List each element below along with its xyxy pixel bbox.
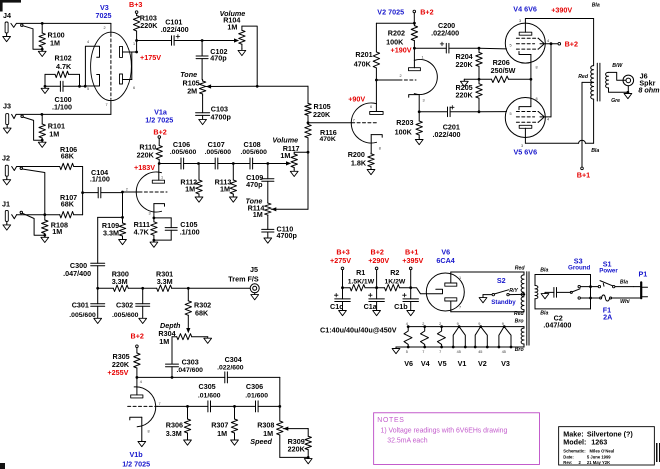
tube V2b grid link — [376, 79, 416, 81]
tube V1a label — [145, 107, 173, 124]
tube V2a grid — [308, 122, 377, 124]
tube V5 screen dashes — [516, 117, 538, 122]
svg-text:21 May Y2K: 21 May Y2K — [587, 460, 610, 465]
svg-text:1: 1 — [422, 56, 424, 60]
node R205/C201 — [478, 110, 481, 113]
wire B+1 center tap — [578, 74, 593, 167]
svg-text:1M: 1M — [52, 227, 62, 236]
ground R108 — [41, 235, 49, 242]
svg-text:J1: J1 — [2, 199, 10, 208]
wire J1 switch — [22, 213, 43, 235]
svg-text:B+2: B+2 — [565, 40, 578, 49]
node R/Y tap — [522, 293, 525, 296]
svg-text:2: 2 — [104, 26, 106, 30]
svg-text:+90V: +90V — [348, 94, 365, 103]
ground C2 — [541, 292, 549, 298]
svg-text:4.7K: 4.7K — [56, 62, 72, 71]
svg-text:4: 4 — [547, 118, 549, 122]
capacitor C303 — [166, 358, 204, 378]
node C303/B+2 wire — [171, 376, 174, 379]
ground C103 — [199, 115, 207, 124]
ground C110 — [264, 232, 272, 243]
label Whi — [620, 299, 630, 305]
node C305/R307 — [233, 405, 236, 408]
svg-text:5: 5 — [87, 87, 89, 91]
heater bus bottom — [396, 346, 524, 348]
svg-text:C303: C303 — [182, 358, 199, 367]
svg-text:9: 9 — [478, 322, 480, 326]
svg-text:S2: S2 — [497, 276, 506, 285]
capacitor C300 — [63, 217, 105, 288]
svg-text:Red: Red — [578, 74, 589, 80]
ground R101 — [38, 140, 46, 147]
svg-text:Bla: Bla — [540, 310, 548, 316]
resistor R300 — [98, 270, 143, 292]
svg-text:6: 6 — [133, 86, 135, 90]
svg-text:7: 7 — [106, 103, 108, 107]
node J3/R101 — [41, 113, 44, 116]
transformer T1 secondary — [606, 72, 628, 92]
svg-text:Power: Power — [599, 267, 618, 274]
title model — [563, 437, 607, 446]
resistor R111 — [134, 218, 158, 242]
svg-text:J3: J3 — [3, 102, 11, 111]
svg-text:C306: C306 — [246, 382, 263, 391]
node J1/R108 — [43, 213, 46, 216]
svg-text:Bro: Bro — [515, 318, 524, 324]
svg-text:.1/100: .1/100 — [180, 228, 200, 237]
terminal B+3 top — [129, 0, 142, 13]
label Speed — [250, 421, 274, 446]
capacitor C1a — [364, 288, 385, 311]
heater bus top — [408, 326, 524, 328]
svg-text:5: 5 — [510, 112, 512, 116]
terminal B+2 (output) — [551, 40, 578, 49]
resistor R112 — [180, 164, 202, 196]
tube V5 plate — [519, 125, 532, 143]
svg-text:Date:: Date: — [563, 454, 573, 459]
wire to C300 — [98, 216, 123, 218]
svg-text:.1/100: .1/100 — [52, 103, 72, 112]
tube V1a grid — [123, 191, 168, 193]
node +190V — [413, 47, 416, 50]
capacitor C301 — [69, 288, 104, 319]
svg-text:1M: 1M — [280, 151, 290, 160]
svg-text:5: 5 — [510, 44, 512, 48]
label Volume (R104) — [220, 9, 246, 31]
node +183V — [134, 162, 161, 172]
svg-text:B/W: B/W — [612, 63, 623, 69]
node C107/R113 — [232, 162, 235, 165]
wire J4 to V3 grid — [16, 22, 111, 24]
svg-text:45: 45 — [457, 350, 461, 354]
ground R102 — [41, 86, 49, 93]
label Bla primary top — [540, 268, 548, 274]
svg-text:9: 9 — [502, 322, 504, 326]
tube V2a plate — [370, 80, 383, 114]
svg-text:R1: R1 — [356, 268, 365, 277]
svg-text:220K: 220K — [288, 445, 306, 454]
node B+2 rail — [375, 286, 378, 289]
potentiometer R304 — [172, 334, 208, 340]
resistor R106 — [17, 145, 83, 170]
label Gre — [611, 98, 620, 104]
svg-text:V2: V2 — [478, 359, 487, 368]
transformer T2 primary — [535, 275, 591, 309]
svg-text:+175V: +175V — [140, 53, 161, 62]
tube V4 grid wire — [479, 47, 507, 50]
wire R106/R107 join — [82, 167, 84, 215]
label Tone (R114) — [246, 196, 265, 219]
svg-text:C1c: C1c — [330, 302, 343, 311]
tube V5 cathode — [519, 79, 531, 109]
tube V2 label — [377, 8, 404, 17]
svg-text:1/2 7025: 1/2 7025 — [145, 116, 173, 125]
ground J5 — [251, 293, 259, 300]
resistor R109 — [102, 217, 126, 237]
svg-text:+290V: +290V — [368, 256, 389, 265]
pin numbers V2b — [400, 56, 425, 103]
svg-text:1M: 1M — [253, 210, 263, 219]
node B+2/R201/R202 — [413, 22, 416, 25]
node R308/R309 ground — [280, 456, 310, 459]
svg-text:C1b: C1b — [394, 302, 408, 311]
svg-text:R202: R202 — [388, 28, 405, 37]
capacitor C105 — [154, 218, 200, 240]
wire to C304 — [172, 376, 225, 378]
tube V5 screen tie — [538, 112, 551, 123]
tube V4 label — [513, 5, 537, 14]
svg-text:J4: J4 — [3, 11, 11, 20]
tube V1b cathode — [130, 417, 142, 440]
ground S2 — [479, 295, 487, 303]
node C200/R204 — [478, 47, 481, 50]
svg-text:.047/600: .047/600 — [177, 367, 204, 374]
terminal B+3 — [330, 248, 351, 288]
svg-text:C106: C106 — [173, 140, 190, 149]
transformer T1 core — [597, 63, 600, 101]
tube V1b envelope — [134, 387, 156, 427]
svg-text:220K: 220K — [140, 21, 158, 30]
ground V1b cathode — [138, 440, 146, 446]
title block box — [559, 427, 655, 465]
tube V2a cathode — [371, 135, 382, 153]
label Bla (S1) — [620, 280, 628, 286]
tube V4 screen tie — [538, 38, 551, 49]
wire volume bus to R105 220K — [257, 85, 308, 87]
wire to R117 wiper — [268, 161, 291, 165]
resistor R201 — [354, 23, 415, 80]
svg-text:Ground: Ground — [568, 265, 591, 272]
svg-text:220K: 220K — [137, 150, 155, 159]
pin numbers V4 — [510, 19, 550, 70]
tube V3 pin numbers — [87, 26, 135, 107]
resistor R205 — [456, 79, 483, 112]
svg-text:+190V: +190V — [391, 46, 412, 55]
node C101/C102 — [201, 39, 204, 42]
wire to ground stub — [464, 78, 479, 80]
svg-text:NOTES: NOTES — [377, 417, 404, 424]
ground R112 — [195, 195, 203, 202]
svg-text:C305: C305 — [199, 382, 216, 391]
tube V6 plates — [445, 283, 457, 301]
node R105/R116/V2 grid — [307, 121, 310, 124]
ground R307 — [231, 439, 239, 445]
tube V3 plates — [120, 46, 139, 84]
terminal B+2 (trem) — [131, 332, 144, 353]
svg-text:2: 2 — [579, 460, 582, 465]
node R104/R105 wiper bus — [256, 85, 259, 88]
tube V6 envelope — [426, 273, 464, 311]
transformer T2 HV winding — [521, 272, 524, 312]
svg-text:R2: R2 — [390, 268, 399, 277]
svg-text:2: 2 — [400, 74, 402, 78]
jack J6 — [623, 75, 634, 94]
svg-text:2M: 2M — [187, 87, 197, 96]
node C300/R300/C301 — [96, 287, 99, 290]
wire bus down to tone wiper — [307, 152, 309, 209]
svg-text:Red: Red — [514, 311, 525, 317]
transformer T1 primary — [591, 19, 594, 144]
tube V5 label — [514, 147, 538, 156]
resistor R102 — [45, 54, 80, 87]
svg-text:.022/600: .022/600 — [217, 364, 244, 371]
switch S2 — [483, 276, 524, 296]
label +175V — [140, 53, 161, 62]
tube V3 cathode brackets — [85, 46, 99, 86]
svg-text:R203: R203 — [396, 118, 413, 127]
label Bro bottom — [515, 347, 524, 353]
svg-text:C302: C302 — [116, 301, 133, 310]
node B+1 rail — [409, 286, 412, 289]
tube V4 envelope — [505, 23, 545, 63]
label Bro top — [515, 318, 524, 324]
capacitor C201 — [419, 106, 479, 140]
svg-text:C1a: C1a — [364, 302, 378, 311]
node R103/C101 — [135, 39, 138, 42]
tube V6 cathode — [411, 288, 443, 294]
pin numbers V1b — [140, 380, 161, 434]
node R102/C100 ground — [44, 85, 47, 88]
svg-text:V3: V3 — [501, 359, 510, 368]
svg-text:V4: V4 — [421, 359, 430, 368]
wire J2 switch — [22, 169, 45, 214]
node J4/R100 — [41, 22, 44, 25]
tube V2a envelope — [351, 103, 376, 143]
svg-text:.005/600: .005/600 — [170, 149, 197, 156]
svg-text:1K/2W: 1K/2W — [385, 278, 406, 285]
capacitor C106 — [159, 140, 198, 169]
svg-text:7: 7 — [159, 402, 161, 406]
svg-text:470p: 470p — [210, 54, 227, 63]
capacitor C306 — [235, 382, 280, 412]
label Red top — [515, 265, 526, 271]
svg-text:.005/600: .005/600 — [69, 312, 96, 319]
label +90V — [348, 94, 365, 103]
resistor R116 — [305, 123, 337, 152]
svg-text:6CA4: 6CA4 — [436, 256, 454, 265]
svg-text:V2 7025: V2 7025 — [377, 8, 404, 17]
svg-text:.022/400: .022/400 — [433, 130, 461, 139]
resistor R305 — [112, 352, 140, 377]
heater V5 — [437, 325, 445, 348]
ground C1b — [407, 302, 415, 316]
capacitor C107 — [199, 140, 234, 169]
wire C304 down — [279, 377, 281, 406]
capacitor C305 — [188, 382, 235, 412]
ground R100 — [38, 49, 46, 56]
node R116/R117 — [307, 151, 310, 154]
node C108/C109/R117 — [266, 162, 269, 165]
resistor R301 — [143, 270, 189, 292]
svg-text:V4 6V6: V4 6V6 — [513, 5, 537, 14]
capacitor C1b — [394, 288, 418, 311]
svg-text:1: 1 — [459, 276, 461, 280]
resistor R107 — [17, 193, 83, 218]
label C1 value — [320, 326, 397, 335]
svg-text:Rev:: Rev: — [563, 460, 572, 465]
node V4 screen B+2 — [550, 42, 553, 45]
ground heater bus — [392, 347, 400, 354]
ground R117 — [290, 169, 298, 176]
svg-text:1M: 1M — [220, 185, 230, 194]
svg-text:B+2: B+2 — [131, 332, 144, 341]
svg-text:1: 1 — [133, 42, 135, 46]
svg-text:.1/100: .1/100 — [90, 174, 110, 183]
svg-text:68K: 68K — [61, 199, 75, 208]
resistor R113 — [215, 164, 237, 196]
tube V4 cathode — [519, 52, 531, 80]
svg-text:.005/600: .005/600 — [205, 149, 232, 156]
node C306/R308 — [278, 405, 281, 408]
svg-text:Miles O'Neal: Miles O'Neal — [590, 449, 615, 454]
svg-text:2A: 2A — [603, 312, 612, 321]
capacitor C2 — [543, 288, 571, 330]
wire V1a grid leak branch — [121, 192, 124, 219]
svg-text:68K: 68K — [61, 151, 75, 160]
svg-text:Red: Red — [515, 265, 526, 271]
resistor R200 — [348, 150, 375, 167]
capacitor C102 — [196, 41, 227, 80]
tube V5 grid wire — [479, 111, 507, 113]
heater V4 — [421, 325, 429, 348]
resistor R105 220K — [305, 86, 331, 123]
node R204/R205/R206 — [478, 78, 481, 81]
jack J4 — [3, 11, 23, 42]
ground C301 — [94, 306, 102, 323]
svg-text:+390V: +390V — [551, 5, 572, 14]
svg-text:8: 8 — [536, 97, 538, 101]
label J6 Spkr — [638, 71, 660, 94]
capacitor C100 — [45, 81, 80, 112]
svg-text:Bla: Bla — [592, 3, 600, 9]
svg-text:1.5K/1W: 1.5K/1W — [348, 278, 375, 285]
tube V1b label — [122, 450, 150, 468]
label Bla bottom — [591, 148, 599, 154]
svg-text:45: 45 — [502, 350, 506, 354]
svg-text:V5: V5 — [438, 359, 447, 368]
node R305/V1b plate — [136, 376, 139, 379]
label +390V — [551, 5, 572, 14]
svg-text:C1:40u/40u/40u@450V: C1:40u/40u/40u@450V — [320, 326, 397, 335]
svg-text:C107: C107 — [208, 140, 225, 149]
svg-text:C108: C108 — [244, 140, 261, 149]
svg-text:+255V: +255V — [107, 368, 128, 377]
svg-text:4: 4 — [406, 322, 408, 326]
title small — [563, 449, 614, 465]
svg-text:7025: 7025 — [96, 11, 112, 20]
resistor R202 — [386, 23, 418, 48]
tube V5 grid dashes — [516, 111, 538, 113]
tube V3 label — [96, 3, 112, 20]
wire J4 switch to ground — [23, 26, 41, 50]
pin numbers V5 — [510, 97, 550, 148]
tube V1a plate — [152, 164, 164, 184]
resistor R206 — [479, 58, 531, 82]
wire J3 to V3 grid — [16, 113, 111, 115]
potentiometer R104 — [239, 26, 258, 86]
wire J3 switch to ground — [23, 117, 41, 140]
node primary/S1 — [589, 285, 592, 288]
potentiometer R117 — [291, 152, 308, 169]
svg-text:3.3M: 3.3M — [157, 277, 173, 286]
capacitor C109 — [246, 164, 274, 203]
svg-text:4.7K: 4.7K — [134, 228, 150, 237]
capacitor C304 — [217, 355, 280, 383]
svg-text:1) Voltage readings with 6V6EH: 1) Voltage readings with 6V6EHs drawing — [381, 427, 508, 434]
pin numbers heaters — [406, 322, 506, 354]
heater labels — [404, 359, 510, 368]
switch S1 — [591, 260, 634, 288]
wire plate node — [137, 376, 172, 378]
ground R203 — [415, 138, 423, 145]
resistor R110 — [137, 138, 163, 163]
svg-text:8: 8 — [148, 430, 150, 434]
ground R304 — [204, 337, 212, 344]
ground R204/R205 — [460, 79, 468, 86]
svg-text:7: 7 — [459, 306, 461, 310]
label Volume (R117) — [272, 135, 299, 160]
resistor R103 — [133, 13, 158, 40]
svg-text:250/5W: 250/5W — [491, 66, 516, 75]
svg-text:+395V: +395V — [402, 256, 423, 265]
resistor R307 — [211, 406, 238, 438]
svg-text:V6: V6 — [441, 247, 450, 256]
ground R109 — [119, 238, 127, 245]
resistor R2 — [377, 268, 411, 291]
svg-text:2: 2 — [126, 188, 128, 192]
transformer T2 heater winding — [521, 327, 524, 347]
svg-text:V6: V6 — [404, 359, 413, 368]
jack J3 — [3, 102, 23, 134]
node C104 in — [81, 191, 84, 194]
node R300/R301/C302 — [141, 287, 144, 290]
svg-text:220K: 220K — [456, 90, 474, 99]
svg-text:6: 6 — [370, 105, 372, 109]
node C104/V1a grid — [121, 191, 124, 194]
tube V6 pins — [459, 276, 461, 310]
terminal B+1 rail — [402, 248, 423, 288]
label +190V — [391, 46, 412, 55]
wire C100 to V3 cathode — [78, 85, 87, 88]
resistor R204 — [456, 48, 483, 79]
heater V3 — [498, 325, 513, 348]
svg-text:9: 9 — [457, 322, 459, 326]
capacitor C302 — [112, 288, 150, 319]
svg-text:3: 3 — [149, 212, 151, 216]
svg-text:.047/400: .047/400 — [63, 269, 91, 278]
resistor R101 — [39, 114, 65, 141]
